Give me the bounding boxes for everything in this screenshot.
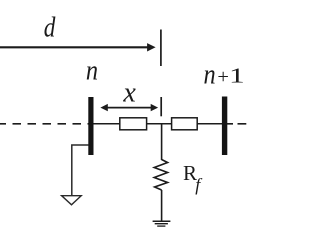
svg-text:n: n xyxy=(204,59,216,90)
svg-text:+: + xyxy=(217,66,229,88)
svg-text:x: x xyxy=(122,77,136,108)
svg-text:d: d xyxy=(44,11,56,43)
svg-text:1: 1 xyxy=(229,63,245,87)
svg-text:n: n xyxy=(86,55,98,86)
